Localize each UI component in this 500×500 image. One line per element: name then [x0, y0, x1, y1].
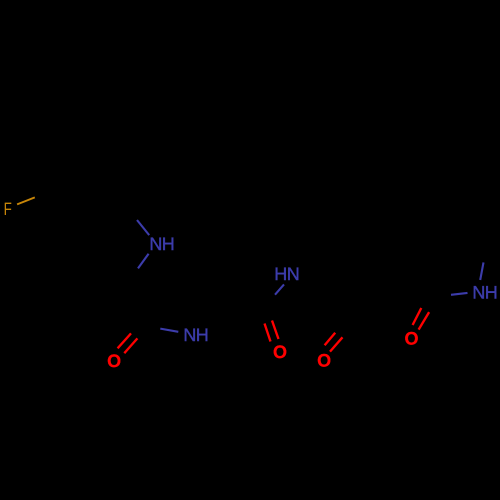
bond C-N1 upper (nitrogen half): [137, 220, 149, 235]
bond N3-C (nitrogen half): [275, 284, 284, 294]
svg-text:O: O: [273, 342, 287, 362]
svg-text:NH: NH: [183, 325, 208, 345]
bond C-N2 (nitrogen half): [160, 329, 178, 332]
bond F1-C (fluorine half): [17, 197, 35, 204]
svg-text:O: O: [405, 328, 419, 348]
double bond C=O4 line 2 (oxygen half): [419, 312, 430, 330]
svg-text:HN: HN: [274, 264, 299, 284]
double bond C=O2 line 1 (oxygen half): [265, 324, 271, 342]
double bond C=O3 line 1 (oxygen half): [325, 333, 336, 346]
double bond C=O2 line 2 (oxygen half): [272, 321, 279, 340]
bond C-N4 left (nitrogen half): [451, 293, 468, 295]
svg-text:O: O: [317, 351, 331, 371]
svg-text:NH: NH: [472, 282, 497, 302]
svg-text:O: O: [107, 351, 121, 371]
double bond C=O1 line 2 (oxygen half): [124, 338, 137, 353]
svg-text:F: F: [4, 199, 12, 219]
double bond C=O4 line 1 (oxygen half): [413, 308, 422, 325]
svg-text:NH: NH: [149, 234, 174, 254]
double bond C=O1 line 1 (oxygen half): [118, 333, 131, 348]
bond N4-C upper (nitrogen half): [480, 262, 483, 280]
double bond C=O3 line 2 (oxygen half): [330, 337, 343, 351]
bond N1-C lower (nitrogen half): [138, 254, 149, 269]
